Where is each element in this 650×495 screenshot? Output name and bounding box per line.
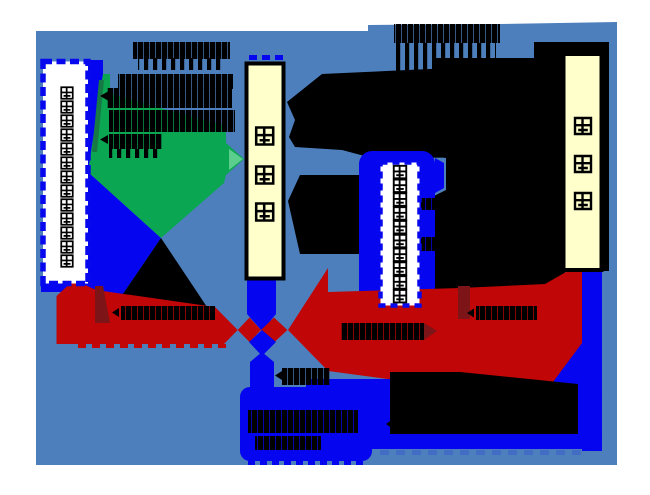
background panel <box>36 22 617 465</box>
employer box shadow <box>600 56 609 271</box>
crossing blue diamond lower <box>249 330 276 356</box>
bottom blue block main <box>240 387 602 449</box>
red arrow right (employer to doctor) <box>288 268 582 384</box>
green arrow dark edge <box>92 80 104 152</box>
black mass above employer box <box>534 42 609 58</box>
label at crossing <box>282 368 330 385</box>
bottom-right big text mass <box>390 372 578 434</box>
blue wedge below left box <box>41 278 88 292</box>
worker box outer blue dashes <box>249 55 283 60</box>
bottom blue block labels <box>248 410 358 433</box>
employer box <box>564 54 602 270</box>
text mass right of worker box <box>288 175 377 254</box>
left blue band behind service box <box>87 60 161 310</box>
worker box label <box>256 128 273 221</box>
blue fill under red slope right <box>548 343 602 390</box>
employer box label <box>575 118 591 209</box>
ring dashes under bottom block <box>380 450 581 455</box>
right blue band below employer <box>582 271 602 451</box>
doctor halo right bump <box>435 158 444 193</box>
text row overhang near doctor box 1 <box>421 198 435 210</box>
bullet bottom text <box>386 418 395 431</box>
bullet arrow left block 2 <box>100 135 108 144</box>
bottom blue block dashes <box>248 461 363 465</box>
black column between doctor box and employer box <box>434 58 565 293</box>
green arrow light tip <box>229 149 243 170</box>
top-left caption text <box>133 42 230 59</box>
bullet crossing label <box>275 371 282 380</box>
bottom blue block left part (taller) <box>240 387 372 461</box>
left service text rows <box>118 74 233 89</box>
label on right red arrow <box>476 306 537 320</box>
label on left red arrow <box>121 306 215 320</box>
black pyramid under green apex <box>112 238 209 310</box>
doctor box label <box>394 166 407 303</box>
maroon fold left <box>95 286 110 323</box>
text row overhang near doctor box 2 <box>421 237 435 251</box>
crossing: blue band from worker box <box>247 278 276 331</box>
label on center red arrow <box>341 323 424 340</box>
bullet arrow left block 1 <box>100 92 108 101</box>
big top-right text mass <box>287 58 563 158</box>
doctor box <box>381 163 420 306</box>
left service box <box>43 62 88 284</box>
bullet left red label <box>112 308 119 317</box>
maroon marker after center label <box>424 323 437 340</box>
worker box <box>247 64 284 279</box>
top caption (right area) <box>394 24 500 43</box>
left service box label <box>61 87 73 267</box>
doctor box blue halo <box>359 151 435 311</box>
crossing red diamond 2 <box>261 318 287 343</box>
red arrow left (employer to service org) <box>57 280 238 344</box>
maroon fold right <box>458 286 470 319</box>
red arrow left bottom dashes <box>78 344 226 348</box>
blue wedge above bottom block <box>306 379 395 390</box>
crossing red diamond 1 <box>238 318 261 343</box>
bullet right red label <box>467 309 474 318</box>
blue band down to bottom block <box>250 352 274 392</box>
green service arrow <box>88 74 244 238</box>
